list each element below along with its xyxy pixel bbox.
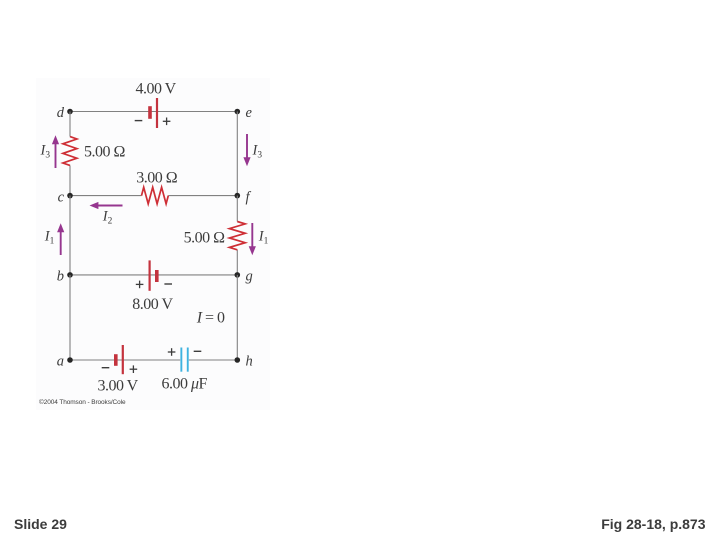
battery 8.00 V — [136, 260, 172, 290]
svg-text:g: g — [246, 269, 253, 285]
svg-text:3.00 Ω: 3.00 Ω — [136, 170, 178, 187]
svg-text:Slide 29: Slide 29 — [14, 516, 67, 532]
svg-text:a: a — [57, 354, 64, 370]
current arrow I2 (left) — [90, 202, 123, 209]
resistor 5.00 ohm (d-c) — [63, 137, 77, 166]
capacitor 6.00 uF — [168, 348, 202, 372]
wire f-g right rail — [236, 196, 238, 275]
resistor 3.00 ohm (c-f) — [142, 187, 169, 204]
battery 4.00 V — [135, 98, 171, 128]
svg-text:d: d — [57, 105, 65, 121]
svg-text:c: c — [58, 190, 65, 206]
svg-text:h: h — [246, 354, 253, 370]
wire a-h bottom rail — [70, 359, 237, 361]
node b — [67, 272, 73, 278]
svg-text:3.00 V: 3.00 V — [97, 378, 138, 395]
current arrow I3 (right, down) — [243, 134, 250, 166]
wire b-g rail — [70, 274, 237, 276]
svg-text:5.00 Ω: 5.00 Ω — [184, 229, 226, 246]
svg-text:8.00 V: 8.00 V — [132, 296, 173, 313]
current arrow I1 (right, down) — [249, 223, 256, 255]
svg-text:e: e — [246, 105, 253, 121]
wire c-f middle rail — [70, 195, 237, 197]
svg-text:b: b — [57, 269, 64, 285]
node h — [235, 357, 241, 363]
wire c-b left rail — [69, 196, 71, 275]
node e — [235, 109, 241, 115]
wire b-a left rail — [69, 275, 71, 360]
wire d-c left rail — [69, 112, 71, 196]
wire g-h right rail — [236, 275, 238, 360]
svg-text:©2004 Thomson - Brooks/Cole: ©2004 Thomson - Brooks/Cole — [39, 398, 126, 406]
node d — [67, 109, 73, 115]
svg-text:I = 0: I = 0 — [196, 310, 225, 327]
node g — [235, 272, 241, 278]
resistor 5.00 ohm (f-g) — [229, 222, 245, 250]
svg-text:6.00 μF: 6.00 μF — [161, 375, 207, 392]
svg-text:Fig 28-18, p.873: Fig 28-18, p.873 — [601, 516, 705, 532]
wire e-f right rail — [236, 112, 238, 196]
node a — [67, 357, 73, 363]
current arrow I1 (left, up) — [57, 223, 64, 255]
svg-text:4.00 V: 4.00 V — [135, 80, 176, 97]
svg-text:5.00 Ω: 5.00 Ω — [84, 143, 126, 160]
battery 3.00 V — [102, 345, 138, 374]
node f — [235, 193, 241, 199]
wire d-e top rail — [70, 111, 237, 113]
current arrow I3 (left, up) — [52, 135, 59, 168]
node c — [67, 193, 73, 199]
